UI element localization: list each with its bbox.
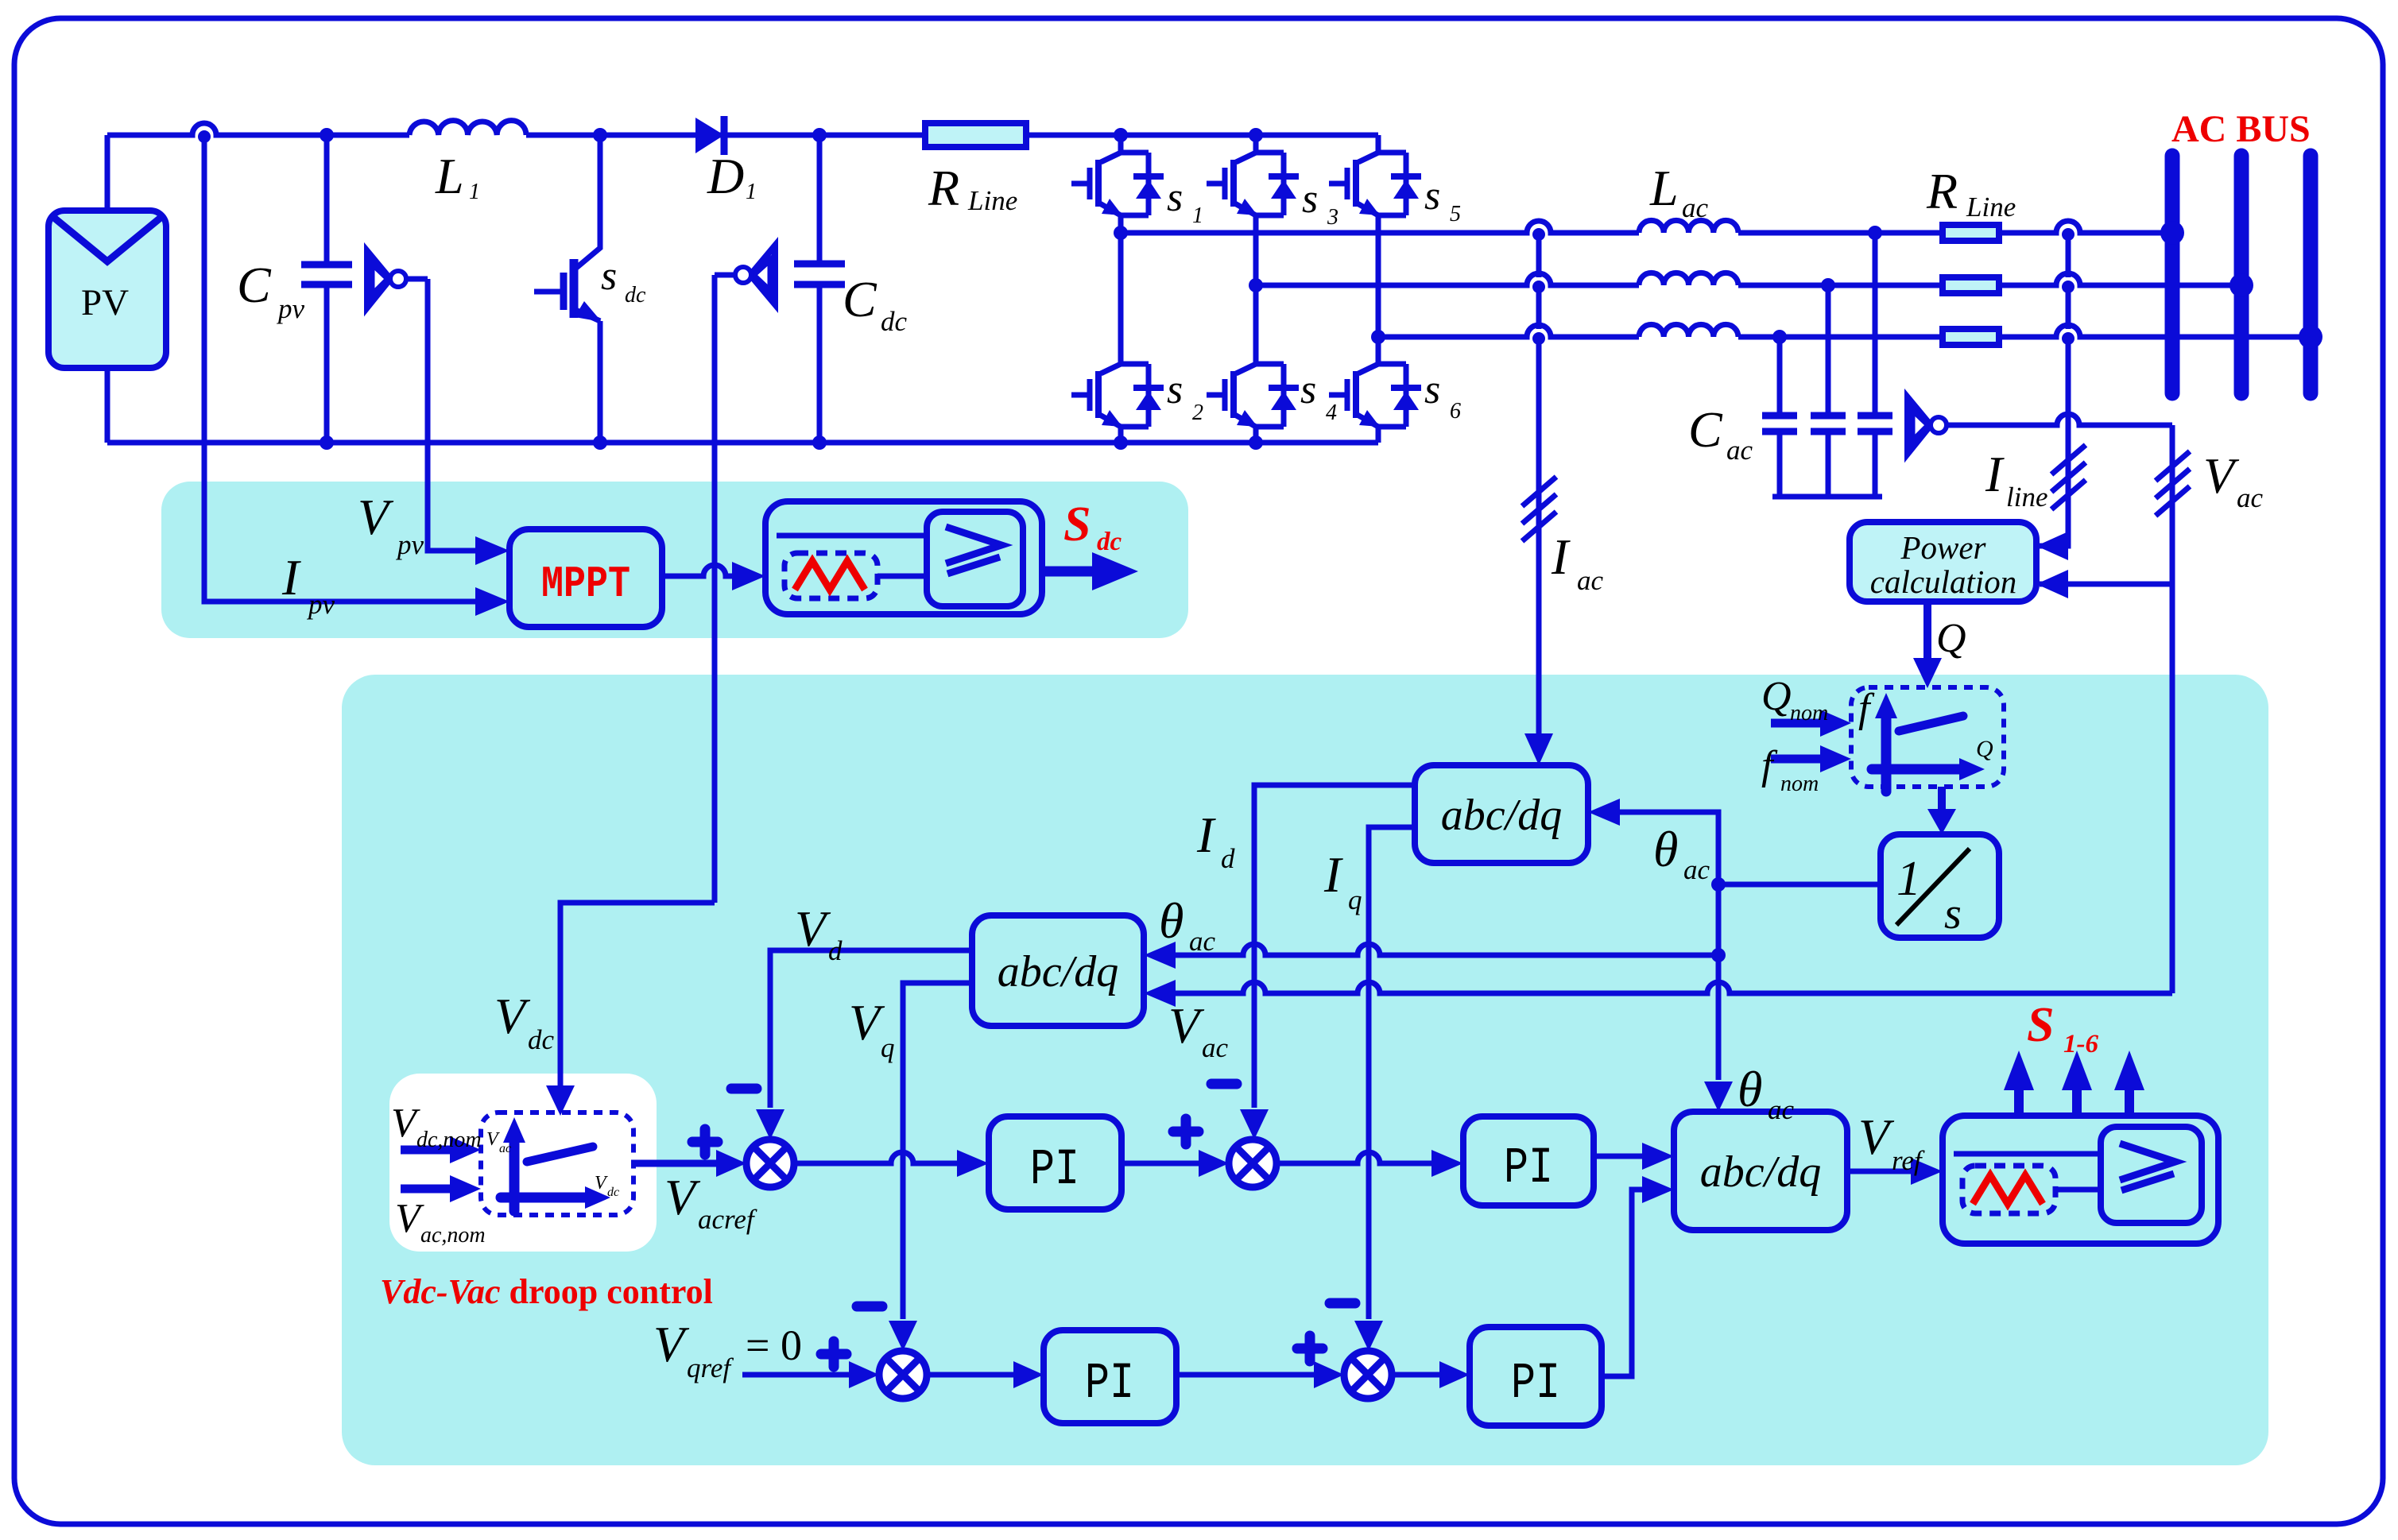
svg-text:PI: PI	[1511, 1356, 1560, 1413]
resistor RLine phase A	[1943, 225, 1999, 241]
wire: PI3 to sum4	[1176, 1372, 1314, 1378]
svg-text:acref: acref	[698, 1204, 757, 1235]
svg-text:= 0: = 0	[746, 1321, 802, 1369]
svg-text:ac: ac	[2237, 482, 2264, 513]
node: Cac tap phase C	[1772, 330, 1787, 344]
wire: Vpv measurement drop	[405, 279, 477, 551]
arrow Iac into abc/dq	[1524, 733, 1553, 765]
arrow into PI3	[1013, 1361, 1044, 1388]
svg-text:AC BUS: AC BUS	[2171, 108, 2311, 150]
MPPT block	[509, 529, 662, 627]
wire: sum3 to PI3	[927, 1372, 1013, 1378]
wire: S2 collector leg	[1118, 233, 1124, 443]
PI controller 3	[1044, 1330, 1176, 1423]
comparator >= symbol 2	[2120, 1143, 2175, 1190]
svg-text:q: q	[881, 1032, 895, 1063]
transistor Sdc (boost IGBT)	[534, 135, 602, 443]
svg-text:s: s	[1302, 176, 1318, 222]
AC bus bar 1	[2165, 156, 2180, 393]
svg-text:R: R	[928, 160, 959, 216]
droop Vdc axis	[501, 1193, 588, 1203]
wire: Vq feedback drop	[903, 983, 972, 1319]
arrow theta into dq/abc	[1704, 1081, 1733, 1112]
node: bus phase A	[2160, 221, 2184, 245]
resistor RLine phase B	[1943, 277, 1999, 293]
svg-text:4: 4	[1326, 400, 1337, 425]
wire: carrier to comparator 2	[2055, 1187, 2101, 1193]
arrow into sum3	[849, 1361, 879, 1388]
svg-text:dc: dc	[881, 306, 908, 337]
svg-text:ref: ref	[1892, 1145, 1925, 1176]
dq/abc output block	[1674, 1112, 1847, 1230]
node: Cac tap phase A	[1868, 226, 1882, 240]
wire: PV bottom lead	[105, 368, 110, 443]
svg-text:MPPT: MPPT	[541, 559, 630, 609]
svg-text:PI: PI	[1504, 1140, 1553, 1198]
svg-text:1: 1	[469, 180, 480, 204]
svg-text:R: R	[1926, 163, 1958, 219]
wire: Id feedback drop	[1254, 785, 1415, 1108]
arrow into 1/s	[1927, 809, 1956, 834]
PWM2 carrier dashed box	[1962, 1166, 2055, 1213]
PWM generator block 2	[1943, 1116, 2218, 1244]
node: Cpv top junction	[320, 128, 334, 142]
gate arrows S1-6	[2019, 1089, 2129, 1116]
droop Vac axis	[509, 1135, 520, 1211]
svg-text:d: d	[828, 935, 843, 966]
arrow into PI2	[1431, 1150, 1463, 1177]
arrow into sum1	[716, 1150, 746, 1177]
svg-text:s: s	[601, 253, 617, 299]
three-phase slashes on Iac	[1522, 477, 1556, 541]
transistor S6	[1329, 346, 1421, 427]
svg-text:Q: Q	[1976, 736, 1993, 762]
arrow theta into abc/dq voltage	[1144, 942, 1176, 969]
node: bus phase B	[2229, 273, 2253, 297]
node: S1 leg top	[1114, 128, 1128, 142]
arrow into sum2	[1199, 1150, 1229, 1177]
arrow Iline into power calculation	[2036, 532, 2068, 560]
svg-text:calculation: calculation	[1870, 563, 2016, 600]
label plus sum4	[1297, 1336, 1323, 1361]
svg-text:S: S	[1063, 497, 1091, 551]
PWM1 triangle carrier (red)	[795, 561, 865, 590]
node: S2 leg bottom	[1114, 435, 1128, 450]
arrow into dq/abc upper	[1642, 1143, 1674, 1170]
wire: PI4 riser to dq/abc	[1602, 1190, 1644, 1376]
AC bus bar 3	[2303, 156, 2319, 393]
label minus Id	[1211, 1079, 1237, 1089]
svg-text:6: 6	[1450, 399, 1461, 424]
wire: S4 collector leg	[1253, 285, 1259, 443]
svg-text:3: 3	[1327, 205, 1338, 230]
resistor RLine phase C	[1943, 329, 1999, 345]
wire: Vd feedback	[770, 950, 972, 1108]
node: S3 leg top	[1249, 128, 1263, 142]
svg-text:Q: Q	[1936, 616, 1966, 661]
tap junctions Iac on phases	[1532, 228, 1545, 241]
svg-text:C: C	[237, 257, 272, 313]
svg-text:C: C	[1688, 401, 1723, 458]
svg-text:s: s	[1424, 367, 1440, 412]
svg-text:I: I	[281, 549, 301, 606]
PWM generator block 1	[765, 501, 1042, 614]
svg-text:V: V	[486, 1129, 500, 1150]
wire: sum4 to PI4	[1392, 1372, 1439, 1378]
svg-text:s: s	[1300, 367, 1316, 412]
svg-text:1: 1	[746, 180, 757, 204]
droop characteristic line	[527, 1147, 593, 1162]
summing junction sum3	[879, 1351, 927, 1399]
svg-text:θ: θ	[1653, 821, 1678, 877]
wire: Q output	[1923, 602, 1931, 666]
node: sdc bottom junction	[593, 435, 607, 450]
input arrow Vdc,nom	[401, 1146, 453, 1155]
wire: Vac branch into power calculation	[2040, 582, 2172, 587]
svg-text:line: line	[2006, 482, 2047, 513]
svg-text:ac: ac	[499, 1142, 511, 1155]
arrow Vac into abc/dq voltage	[1144, 980, 1176, 1007]
input arrow fnom	[1771, 755, 1823, 764]
transistor S5	[1329, 135, 1421, 215]
wire: S3 emitter leg	[1253, 215, 1259, 285]
arrow Q into droop	[1913, 658, 1942, 688]
svg-text:θ: θ	[1159, 892, 1184, 949]
svg-text:I: I	[1196, 807, 1216, 863]
summing junction sum4	[1344, 1351, 1392, 1399]
wire: Vac drop line	[2170, 425, 2175, 993]
arrow into PWM1	[732, 562, 765, 590]
arrow Vref into PWM2	[1911, 1158, 1943, 1185]
svg-text:L: L	[1649, 160, 1679, 216]
arrow Vd into sum1	[756, 1109, 784, 1140]
svg-text:V: V	[595, 1173, 608, 1194]
wire: phase C line	[1378, 325, 2311, 337]
arrow Vq into sum3	[889, 1321, 917, 1351]
svg-text:I: I	[1985, 446, 2005, 502]
capacitor Cac A	[1873, 233, 1878, 497]
node: Cac tap phase B	[1821, 278, 1835, 292]
Qf droop characteristic	[1899, 716, 1963, 731]
svg-text:C: C	[843, 271, 877, 327]
svg-text:ac: ac	[1682, 192, 1709, 223]
transistor S4	[1207, 346, 1299, 427]
arrow into PI1	[957, 1150, 989, 1177]
label minus Vd	[731, 1084, 757, 1094]
svg-text:s: s	[1167, 175, 1183, 220]
summing junction sum1	[746, 1140, 794, 1187]
capacitor Cdc	[794, 135, 845, 443]
wire: droop output to sum1	[633, 1160, 719, 1167]
svg-text:pv: pv	[395, 529, 424, 560]
svg-text:I: I	[1323, 846, 1343, 903]
integrator 1/s block	[1881, 834, 1999, 938]
Sdc gate arrow	[1042, 567, 1095, 577]
comparator >= symbol	[946, 527, 1001, 574]
Qf droop f axis	[1881, 712, 1892, 791]
svg-text:S: S	[2027, 998, 2054, 1052]
svg-text:Line: Line	[967, 185, 1017, 216]
wire: S5 emitter leg	[1376, 215, 1381, 337]
transistor S1	[1071, 135, 1164, 215]
label plus sum3	[821, 1341, 846, 1367]
arrow Vac into power calculation	[2036, 570, 2068, 598]
abc/dq voltage block	[972, 915, 1144, 1026]
wire: Iq feedback drop	[1369, 827, 1415, 1319]
PWM2 triangle carrier (red)	[1973, 1175, 2043, 1204]
svg-text:abc/dq: abc/dq	[998, 947, 1118, 996]
label minus Iq	[1330, 1298, 1355, 1309]
wire: carrier to comparator	[877, 574, 927, 579]
Qf droop Q axis	[1872, 764, 1959, 775]
wire: Qf droop output	[1938, 787, 1946, 812]
voltage sensor at Cdc	[735, 246, 775, 304]
node: phase C junction	[1371, 330, 1385, 344]
svg-text:ac: ac	[1577, 565, 1604, 596]
svg-text:Line: Line	[1966, 192, 2016, 222]
wire: PI1 to sum2	[1122, 1161, 1199, 1167]
wire: Vac sense line with hop	[1947, 414, 2172, 425]
PI controller 2	[1463, 1116, 1594, 1205]
svg-text:ac: ac	[1683, 854, 1710, 885]
input arrow Vac,nom	[401, 1185, 453, 1194]
transistor S3	[1207, 135, 1299, 215]
svg-text:PI: PI	[1030, 1142, 1079, 1199]
PWM2 reference line	[1954, 1151, 2101, 1157]
svg-text:s: s	[1167, 367, 1183, 412]
svg-text:ac,nom: ac,nom	[420, 1223, 486, 1248]
node: Cpv bottom junction	[320, 435, 334, 450]
voltage sensor Vac	[1908, 397, 1947, 454]
tap junctions Iline on phases	[2062, 228, 2075, 241]
node: theta junction 1	[1711, 877, 1726, 892]
three-phase slashes on Vac	[2156, 451, 2190, 516]
svg-text:qref: qref	[687, 1352, 734, 1383]
wire: 1/s output to theta bus	[1718, 882, 1881, 888]
arrow Id into sum2	[1240, 1109, 1269, 1140]
node: S4 leg bottom	[1249, 435, 1263, 450]
svg-text:Power: Power	[1900, 529, 1986, 566]
svg-text:ac: ac	[1768, 1094, 1795, 1125]
svg-text:1-6: 1-6	[2063, 1030, 2098, 1058]
svg-text:abc/dq: abc/dq	[1700, 1147, 1821, 1197]
svg-text:pv: pv	[306, 589, 335, 620]
arrow into PI4	[1439, 1361, 1470, 1388]
arrow theta into abc/dq current	[1588, 799, 1620, 826]
node: sdc top junction	[593, 128, 607, 142]
svg-text:θ: θ	[1737, 1061, 1762, 1117]
wire: phase B line	[1256, 273, 2241, 285]
summing junction sum2	[1229, 1140, 1276, 1187]
wire: Vqref into sum3	[742, 1372, 849, 1378]
node: Cdc top junction	[812, 128, 827, 142]
svg-text:q: q	[1348, 884, 1362, 915]
wire: PV top lead	[105, 135, 110, 211]
wire: MPPT output with hop over Vdc line	[662, 565, 734, 576]
svg-text:1: 1	[1896, 852, 1921, 906]
abc/dq current block	[1415, 765, 1588, 863]
svg-text:nom: nom	[1780, 772, 1819, 796]
capacitor Cpv	[301, 135, 352, 443]
resistor RLine DC	[925, 123, 1026, 147]
PWM1 reference line	[777, 533, 927, 539]
PV source	[48, 211, 166, 368]
inductor L1	[409, 121, 526, 135]
svg-text:ac: ac	[1726, 435, 1753, 466]
wire: theta_ac feed to abc/dq voltage with hops	[1174, 944, 1718, 955]
label minus Vq	[857, 1302, 882, 1312]
wire: Vref output	[1847, 1169, 1912, 1174]
label plus sum1	[692, 1129, 718, 1155]
droop control white panel	[389, 1074, 657, 1252]
wire: sum2 to PI2 with hop over Iq	[1276, 1152, 1433, 1163]
node: phase B junction	[1249, 278, 1263, 292]
diode D1	[695, 116, 724, 155]
svg-text:D: D	[707, 148, 744, 204]
AC bus bar 2	[2234, 156, 2249, 393]
PWM1 comparator box	[927, 512, 1023, 606]
node: Cdc bottom junction	[812, 435, 827, 450]
wire: Vdc line turning to droop	[560, 903, 715, 1087]
PWM1 carrier dashed box	[784, 553, 877, 598]
arrow into dq/abc lower	[1642, 1176, 1674, 1203]
svg-text:PI: PI	[1085, 1356, 1134, 1413]
wire: S6 collector leg	[1376, 337, 1381, 443]
svg-text:pv: pv	[276, 293, 305, 324]
svg-text:abc/dq: abc/dq	[1441, 791, 1562, 840]
Power calculation block	[1850, 522, 2036, 602]
arrow into MPPT (Ipv)	[475, 587, 509, 616]
wire: Iline measurement line	[2040, 234, 2068, 546]
svg-text:dc,nom: dc,nom	[416, 1128, 482, 1152]
wire: Vac feed to abc/dq voltage with hops	[1174, 982, 2172, 993]
svg-text:I: I	[1551, 528, 1571, 585]
node: bus phase C	[2299, 325, 2322, 349]
arrow Vdc into droop box	[546, 1085, 575, 1116]
inductor Lac phase B	[1639, 273, 1738, 285]
wire: phase A line	[1121, 221, 2172, 233]
arrow Iq into sum4	[1354, 1321, 1383, 1351]
svg-text:dc: dc	[625, 283, 646, 308]
inductor Lac phase A	[1639, 220, 1738, 233]
label plus sum2	[1173, 1119, 1199, 1144]
wire: Ipv measurement drop	[204, 137, 477, 602]
wire: Cac star bus	[1772, 494, 1882, 500]
capacitor Cac C	[1777, 337, 1783, 497]
wire: PI2 to dq/abc	[1594, 1154, 1644, 1159]
svg-text:L: L	[435, 148, 464, 204]
svg-text:dc: dc	[1097, 528, 1122, 556]
svg-text:Vdc-Vac droop control: Vdc-Vac droop control	[380, 1272, 713, 1311]
PI controller 1	[989, 1116, 1122, 1209]
svg-text:s: s	[1944, 889, 1962, 938]
wire: DC top rail	[107, 123, 1378, 135]
voltage sensor at Cpv	[367, 251, 406, 308]
PWM2 comparator box	[2101, 1127, 2202, 1223]
svg-text:nom: nom	[1790, 701, 1828, 726]
droop dashed box	[481, 1112, 633, 1215]
node: phase A junction	[1114, 226, 1128, 240]
three-phase slashes on Iline	[2051, 445, 2086, 509]
main control box background	[342, 675, 2268, 1465]
svg-text:2: 2	[1192, 400, 1203, 425]
wire: Vdc measurement drop	[715, 275, 735, 903]
input arrow Qnom	[1771, 719, 1823, 728]
wire: DC bottom rail	[107, 440, 1378, 446]
PI controller 4	[1470, 1327, 1602, 1426]
wire: sum1 to PI1 with hop over Vq	[794, 1152, 959, 1163]
inductor Lac phase C	[1639, 324, 1738, 337]
svg-text:dc: dc	[528, 1024, 555, 1055]
wire: theta_ac riser and feed to abc/dq current	[1618, 812, 1718, 884]
svg-text:5: 5	[1450, 202, 1461, 226]
wire: Iac measurement line	[1536, 234, 1542, 739]
wire: theta_ac down to dq/abc	[1716, 884, 1722, 1080]
capacitor Cac B	[1826, 285, 1831, 497]
svg-text:s: s	[1424, 173, 1440, 219]
svg-text:ac: ac	[1202, 1032, 1229, 1063]
svg-text:1: 1	[1192, 203, 1203, 228]
arrow into MPPT (Vpv)	[475, 536, 509, 565]
transistor S2	[1071, 346, 1164, 427]
node: theta junction 2	[1711, 948, 1726, 962]
svg-text:dc: dc	[607, 1186, 619, 1199]
svg-text:d: d	[1221, 843, 1235, 874]
arrow into sum4	[1314, 1361, 1344, 1388]
svg-text:PV: PV	[81, 282, 129, 323]
svg-text:Q: Q	[1761, 674, 1792, 719]
svg-text:ac: ac	[1189, 926, 1216, 957]
Q-f droop dashed box	[1851, 687, 2004, 787]
tap junction Ipv on DC rail	[198, 130, 211, 143]
MPPT control band background	[161, 482, 1188, 638]
